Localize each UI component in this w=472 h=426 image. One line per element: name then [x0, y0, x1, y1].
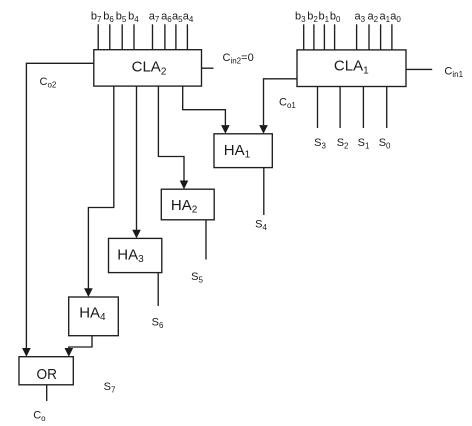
svg-text:b0: b0	[330, 11, 341, 25]
arrow into HA4	[84, 288, 93, 297]
wire input b7 to CLA2	[97, 24, 99, 49]
svg-text:Cin1: Cin1	[444, 66, 463, 80]
svg-text:b7: b7	[91, 11, 102, 25]
node Co1 arrow into HA1	[259, 125, 268, 134]
svg-text:Co2: Co2	[40, 76, 57, 90]
svg-text:a2: a2	[368, 11, 379, 25]
svg-text:a0: a0	[390, 11, 401, 25]
svg-text:a6: a6	[161, 11, 172, 25]
wire OR out Co	[46, 385, 48, 401]
or gate OR	[19, 357, 73, 385]
wire input a2 to CLA1	[368, 24, 370, 50]
wire input b4 to CLA2	[133, 24, 135, 49]
svg-text:a1: a1	[380, 11, 391, 25]
wire CLA2 sum out s6 to HA3	[136, 86, 138, 230]
svg-text:S7: S7	[104, 381, 116, 395]
adder block CLA1	[297, 50, 406, 87]
svg-text:Co: Co	[33, 410, 46, 424]
svg-text:a3: a3	[355, 11, 366, 25]
svg-text:Cin2=0: Cin2=0	[223, 52, 254, 66]
wire input b0 to CLA1	[334, 24, 336, 50]
wire Co2 from CLA2 left to OR input	[26, 63, 93, 348]
node Cin1 stub wire	[406, 68, 432, 70]
wire CLA2 sum out s5 to HA2	[158, 86, 184, 181]
svg-text:a5: a5	[172, 11, 183, 25]
wire CLA2 sum out s7 to HA4	[88, 86, 113, 288]
svg-text:S1: S1	[358, 137, 370, 151]
half adder HA1	[214, 134, 272, 168]
wire CLA1 sum out S3	[317, 87, 319, 129]
node Co2 arrow into OR	[22, 348, 31, 357]
svg-text:b1: b1	[319, 11, 330, 25]
half adder HA4	[69, 297, 119, 336]
wire HA2 sum out S5	[205, 220, 207, 260]
wire HA3 sum out S6	[157, 273, 159, 306]
svg-text:a4: a4	[183, 11, 194, 25]
half adder HA2	[161, 189, 214, 220]
wire input b2 to CLA1	[313, 24, 315, 50]
svg-text:b6: b6	[103, 11, 114, 25]
arrow HA4 carry into OR	[65, 348, 74, 357]
wire input a6 to CLA2	[164, 24, 166, 49]
arrow into HA1 left	[221, 125, 230, 134]
wire input a3 to CLA1	[356, 24, 358, 50]
node Cin2 stub wire	[202, 67, 214, 69]
svg-text:S4: S4	[255, 219, 267, 233]
adder block CLA2	[94, 50, 202, 86]
svg-text:a7: a7	[149, 11, 160, 25]
wire input a5 to CLA2	[175, 24, 177, 49]
svg-text:b5: b5	[116, 11, 127, 25]
arrow into HA3	[132, 230, 141, 239]
wire input b1 to CLA1	[323, 24, 325, 50]
svg-text:b2: b2	[307, 11, 318, 25]
wire input b3 to CLA1	[303, 24, 305, 50]
svg-text:OR: OR	[36, 366, 57, 383]
wire input a0 to CLA1	[391, 24, 393, 50]
wire CLA2 sum out s4 to HA1	[183, 86, 226, 125]
svg-text:Co1: Co1	[279, 97, 296, 111]
wire HA4 carry out to OR input	[69, 336, 92, 348]
wire input a1 to CLA1	[380, 24, 382, 50]
svg-text:S3: S3	[314, 137, 326, 151]
wire input a7 to CLA2	[152, 24, 154, 49]
wire Co1 from CLA1 left to HA1	[264, 79, 298, 126]
wire CLA1 sum out S0	[386, 87, 388, 129]
wire CLA1 sum out S2	[339, 87, 341, 129]
half adder HA3	[109, 238, 162, 272]
svg-text:S0: S0	[379, 137, 391, 151]
wire HA1 sum out S4	[263, 168, 265, 215]
wire input b5 to CLA2	[121, 24, 123, 49]
svg-text:b4: b4	[128, 11, 139, 25]
wire CLA1 sum out S1	[362, 87, 364, 129]
wire input b6 to CLA2	[109, 24, 111, 49]
svg-text:S6: S6	[152, 317, 164, 331]
svg-text:b3: b3	[295, 11, 306, 25]
wire input a4 to CLA2	[186, 24, 188, 49]
svg-text:S5: S5	[191, 271, 203, 285]
arrow into HA2	[180, 181, 189, 190]
svg-text:S2: S2	[337, 137, 349, 151]
